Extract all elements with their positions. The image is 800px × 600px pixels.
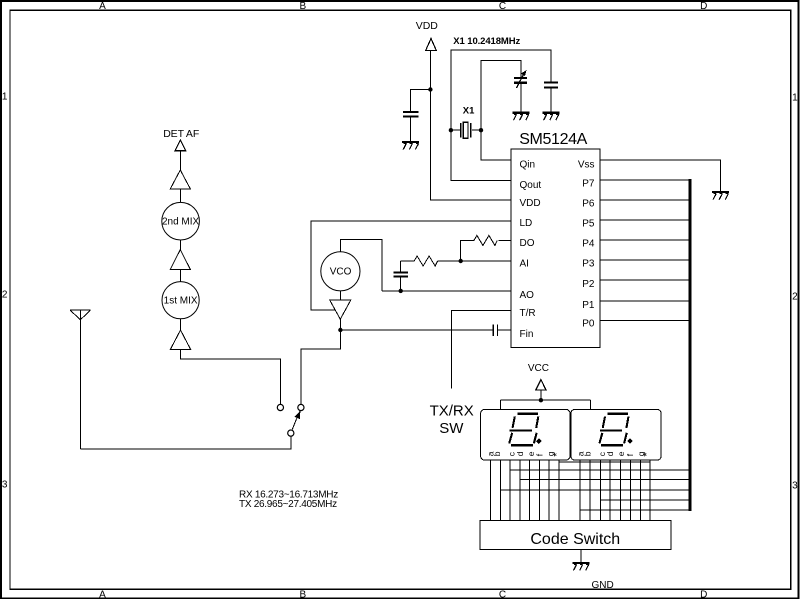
svg-text:3: 3 bbox=[2, 480, 8, 491]
wire DS2 segment pins bbox=[580, 460, 650, 520]
switch SW throw RX contact bbox=[277, 404, 283, 410]
wire amp1 to 2nd MIX bbox=[179, 189, 181, 202]
arrow DET AF output bbox=[175, 140, 186, 151]
display DS2 body bbox=[571, 409, 661, 460]
display DS2 digit segments bbox=[599, 414, 628, 446]
svg-text:Qout: Qout bbox=[520, 180, 542, 191]
ground under trimmer bbox=[512, 113, 529, 121]
svg-text:VDD: VDD bbox=[520, 198, 541, 209]
svg-text:LD: LD bbox=[520, 218, 533, 229]
svg-text:2nd MIX: 2nd MIX bbox=[162, 217, 200, 228]
wire VDD rail down to IC VDD pin bbox=[430, 51, 511, 200]
display DS2 pin labels a-g bbox=[576, 451, 653, 456]
wire VCC to displays bbox=[500, 390, 590, 409]
wire 1st MIX to amp3 bbox=[180, 319, 182, 330]
svg-text:P5: P5 bbox=[582, 218, 595, 229]
wire VCO output down to TX switch throw bbox=[301, 330, 340, 404]
display DS1 body bbox=[481, 409, 570, 460]
svg-text:A: A bbox=[99, 1, 106, 12]
wire P4 bbox=[600, 239, 690, 241]
svg-text:A: A bbox=[99, 589, 106, 600]
wire matrix row c2 to bus bbox=[600, 499, 690, 501]
svg-text:Fin: Fin bbox=[520, 329, 534, 340]
power symbol VCC arrow bbox=[536, 380, 546, 390]
node AI DO junction bbox=[459, 259, 463, 263]
wire amp3 to RX switch throw bbox=[181, 349, 281, 404]
switch SW pole contact bbox=[288, 430, 294, 436]
crystal X1 bbox=[453, 122, 479, 138]
svg-text:DO: DO bbox=[520, 238, 535, 249]
wire VCO top to AO pin bbox=[341, 240, 511, 291]
switch block Code Switch body bbox=[480, 521, 671, 550]
display DS2 decimal point bbox=[627, 438, 633, 444]
node crystal right junction bbox=[479, 128, 483, 132]
wire matrix row a2 to bus bbox=[580, 509, 690, 511]
mixer 2nd MIX circle bbox=[162, 202, 200, 240]
antenna ANT bbox=[70, 310, 91, 320]
wire matrix row d1 to bus bbox=[520, 479, 690, 481]
svg-text:P4: P4 bbox=[582, 238, 595, 249]
ground under load capacitor bbox=[542, 113, 559, 121]
mixer 1st MIX circle bbox=[162, 282, 199, 319]
amplifier VCO buffer triangle bbox=[330, 300, 351, 319]
svg-text:C: C bbox=[499, 1, 506, 12]
wire crystal left to Qout pin bbox=[451, 130, 511, 180]
display DS1 pin labels a-g bbox=[485, 451, 562, 456]
wire VCO bottom to amp bbox=[339, 291, 341, 300]
wire P2 bbox=[600, 279, 690, 281]
wire P5 bbox=[600, 219, 690, 221]
svg-text:C: C bbox=[499, 589, 506, 600]
wire amp2 to 1st MIX bbox=[179, 270, 181, 282]
svg-text:Vss: Vss bbox=[578, 159, 595, 170]
bus vertical P7-P0 bbox=[689, 179, 692, 511]
svg-text:TX 26.965~27.405MHz: TX 26.965~27.405MHz bbox=[239, 499, 337, 510]
svg-text:SW: SW bbox=[439, 420, 464, 437]
svg-text:P1: P1 bbox=[582, 300, 595, 311]
capacitor C between AI and AO bbox=[393, 261, 408, 291]
ground Vss bbox=[712, 192, 729, 200]
svg-text:d: d bbox=[515, 451, 525, 456]
wire DO with resistor R bbox=[461, 235, 511, 261]
svg-text:VCO: VCO bbox=[330, 267, 352, 278]
wire antenna stem bbox=[79, 310, 81, 449]
trimmer capacitor CV1 bbox=[514, 70, 527, 111]
label TX/RX SW bbox=[430, 403, 474, 438]
svg-text:VDD: VDD bbox=[416, 20, 439, 32]
wire amp output to node bbox=[339, 319, 341, 330]
wire arrow to amp1 bbox=[179, 151, 181, 170]
wire P7 bbox=[600, 179, 690, 181]
wire P3 bbox=[600, 259, 690, 261]
svg-text:T/R: T/R bbox=[520, 308, 536, 319]
amplifier A3 triangle bbox=[170, 330, 190, 349]
node VDD bypass junction bbox=[428, 87, 432, 91]
zone labels bottom bbox=[99, 589, 707, 600]
svg-text:d: d bbox=[605, 451, 615, 456]
wire VDD to bypass capacitor bbox=[411, 90, 431, 112]
wire Fin with series capacitor bbox=[340, 325, 511, 336]
svg-text:B: B bbox=[299, 1, 306, 12]
svg-text:P2: P2 bbox=[582, 279, 595, 290]
wire P0 bbox=[600, 319, 690, 321]
wire DS1 segment pins bbox=[490, 460, 559, 520]
ground under Code Switch bbox=[572, 563, 589, 571]
display DS1 decimal point bbox=[536, 438, 542, 444]
svg-text:2: 2 bbox=[2, 290, 8, 301]
svg-text:B: B bbox=[299, 589, 306, 600]
svg-text:SM5124A: SM5124A bbox=[519, 131, 587, 148]
switch SW lever arrow bbox=[292, 412, 300, 430]
svg-text:D: D bbox=[700, 1, 707, 12]
svg-text:AO: AO bbox=[520, 290, 535, 301]
svg-text:P0: P0 bbox=[582, 318, 595, 329]
svg-text:*: * bbox=[552, 453, 563, 457]
svg-text:X1 10.2418MHz: X1 10.2418MHz bbox=[453, 36, 520, 47]
svg-text:TX/RX: TX/RX bbox=[430, 403, 474, 420]
wire matrix row b1 to bus bbox=[500, 489, 690, 491]
svg-text:P3: P3 bbox=[582, 258, 595, 269]
wire 2nd MIX to amp2 bbox=[180, 240, 182, 250]
switch SW throw TX contact bbox=[298, 404, 304, 410]
svg-text:X1: X1 bbox=[463, 106, 475, 117]
capacitor C bypass VDD bbox=[403, 112, 418, 141]
wire antenna to switch pole bbox=[80, 436, 290, 449]
svg-text:1: 1 bbox=[792, 93, 798, 104]
pin labels U1 right bbox=[578, 159, 595, 329]
wire P6 bbox=[600, 199, 690, 201]
wire crystal right to Qin pin bbox=[481, 130, 511, 160]
svg-text:*: * bbox=[642, 453, 653, 457]
wire crystal outer loop bbox=[451, 50, 551, 130]
wire LD pin to VCO amp input bbox=[311, 221, 511, 310]
wire P1 bbox=[600, 300, 690, 302]
wire matrix row c1 to bus bbox=[510, 469, 690, 471]
node AO capacitor junction bbox=[399, 289, 403, 293]
oscillator VCO circle bbox=[321, 252, 360, 291]
wire T/R pin down to switch area bbox=[451, 311, 511, 389]
svg-text:1st MIX: 1st MIX bbox=[164, 296, 198, 307]
svg-text:b: b bbox=[582, 451, 592, 456]
pin labels U1 left bbox=[520, 160, 542, 340]
wire Code Switch to ground bbox=[580, 550, 582, 562]
display DS1 digit segments bbox=[509, 414, 538, 446]
capacitor C load right bbox=[544, 83, 558, 112]
svg-text:3: 3 bbox=[792, 481, 798, 492]
amplifier A2 triangle bbox=[170, 250, 190, 270]
wire decimal point common bbox=[559, 461, 650, 463]
node crystal left junction bbox=[449, 128, 453, 132]
svg-text:DET AF: DET AF bbox=[163, 128, 199, 140]
zone labels right bbox=[792, 93, 798, 492]
wire crystal inner loop to trimmer bbox=[481, 60, 521, 129]
node VCO output junction bbox=[338, 328, 342, 332]
wire Vss pin to ground bbox=[600, 160, 721, 191]
svg-text:D: D bbox=[700, 589, 707, 600]
svg-text:1: 1 bbox=[2, 92, 8, 103]
power symbol VDD arrow bbox=[426, 39, 437, 51]
node VCC junction bbox=[539, 398, 543, 402]
svg-text:VCC: VCC bbox=[528, 363, 549, 374]
svg-text:GND: GND bbox=[592, 580, 614, 591]
op IC U1 SM5124A body bbox=[511, 149, 600, 347]
svg-text:b: b bbox=[492, 451, 502, 456]
svg-text:P6: P6 bbox=[582, 198, 595, 209]
amplifier A1 triangle bbox=[170, 170, 190, 189]
zone labels top bbox=[99, 1, 707, 12]
svg-text:2: 2 bbox=[792, 292, 798, 303]
svg-text:Code Switch: Code Switch bbox=[530, 531, 620, 548]
ground under VDD bypass capacitor bbox=[402, 142, 419, 150]
svg-text:AI: AI bbox=[520, 258, 529, 269]
svg-text:Qin: Qin bbox=[520, 160, 536, 171]
wire AI with resistor bbox=[401, 256, 511, 266]
zone labels left bbox=[2, 92, 8, 491]
svg-text:P7: P7 bbox=[582, 179, 595, 190]
